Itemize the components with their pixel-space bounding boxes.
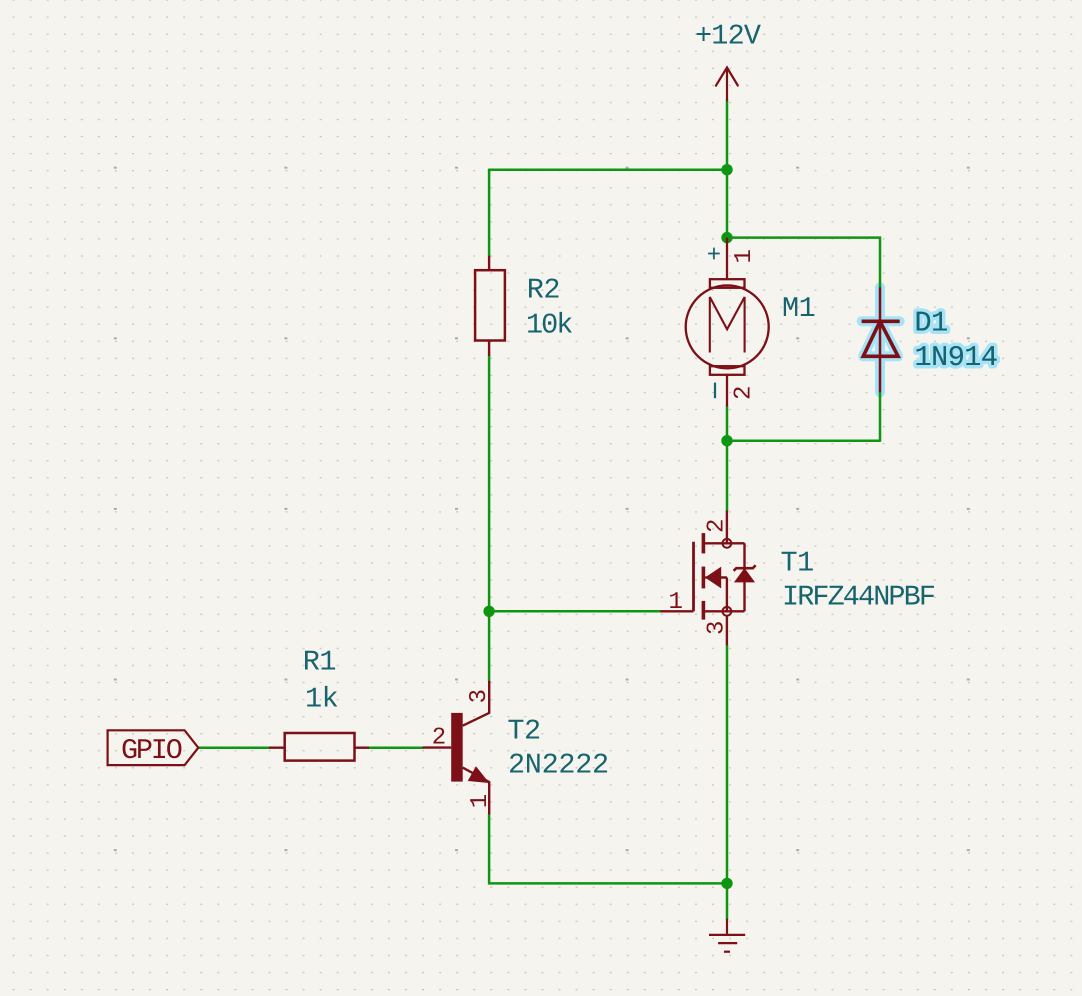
svg-text:1: 1 xyxy=(467,794,494,808)
svg-text:3: 3 xyxy=(466,689,493,703)
svg-text:IRFZ44NPBF: IRFZ44NPBF xyxy=(782,581,935,614)
svg-text:2: 2 xyxy=(432,725,446,752)
svg-text:2: 2 xyxy=(731,386,758,400)
svg-text:R1: R1 xyxy=(303,646,336,679)
svg-text:2: 2 xyxy=(704,519,731,533)
svg-text:1k: 1k xyxy=(305,683,338,716)
svg-text:+12V: +12V xyxy=(695,20,761,53)
svg-text:2N2222: 2N2222 xyxy=(508,749,609,782)
svg-text:R2: R2 xyxy=(527,274,560,307)
svg-text:1: 1 xyxy=(669,589,683,616)
svg-text:T2: T2 xyxy=(507,714,540,747)
svg-text:T1: T1 xyxy=(781,546,814,579)
svg-text:+: + xyxy=(707,243,721,270)
svg-text:10k: 10k xyxy=(526,309,572,342)
svg-text:1: 1 xyxy=(731,249,758,263)
svg-text:D1: D1 xyxy=(915,307,948,340)
svg-text:GPIO: GPIO xyxy=(121,734,182,767)
svg-text:3: 3 xyxy=(703,621,730,635)
svg-text:M1: M1 xyxy=(782,292,815,325)
svg-text:1N914: 1N914 xyxy=(915,341,998,374)
